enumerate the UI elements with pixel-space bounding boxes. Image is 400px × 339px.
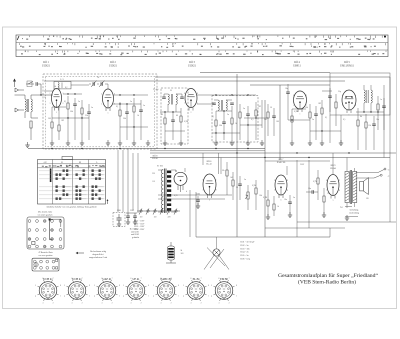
capacitor C9 <box>139 100 143 140</box>
resistor R104 <box>266 190 270 219</box>
shield box (demodulator) <box>330 73 390 115</box>
svg-text:5n: 5n <box>312 119 314 121</box>
wire +anode supply <box>44 77 390 81</box>
label RÖ 9 EL84 <box>330 164 336 170</box>
svg-text:0,5M: 0,5M <box>184 121 188 123</box>
capacitor C105 <box>288 195 292 217</box>
label wafer switch I <box>37 211 53 217</box>
svg-text:6: 6 <box>326 180 327 182</box>
svg-text:6,3V: 6,3V <box>174 195 178 197</box>
svg-text:1: 1 <box>119 295 120 297</box>
resistor R19 <box>365 114 367 150</box>
svg-text:50k: 50k <box>305 107 308 109</box>
resistor R2 <box>67 96 69 140</box>
svg-text:C103 = 10n: C103 = 10n <box>240 248 249 250</box>
svg-text:1k: 1k <box>277 206 279 208</box>
svg-text:8: 8 <box>216 190 217 192</box>
svg-text:5n: 5n <box>243 108 245 110</box>
wire top bus <box>200 73 330 86</box>
svg-text:4: 4 <box>153 295 154 297</box>
svg-text:3: 3 <box>71 303 72 305</box>
svg-text:3: 3 <box>218 303 219 305</box>
resistor R7 <box>133 98 135 140</box>
svg-text:25k: 25k <box>85 115 88 117</box>
svg-text:U102 = 125V: U102 = 125V <box>134 223 145 225</box>
svg-text:4: 4 <box>64 295 65 297</box>
title line 1 <box>278 273 378 279</box>
svg-text:2: 2 <box>191 112 192 114</box>
svg-text:50k: 50k <box>70 111 73 113</box>
svg-text:EZ 80: EZ 80 <box>152 158 158 160</box>
wire chassis bus <box>28 148 265 149</box>
resistor R3 <box>81 100 83 140</box>
label Tr101 <box>157 166 163 168</box>
resistor R107 <box>322 188 326 217</box>
wire grid RÖ1 <box>31 94 53 95</box>
note text block <box>130 229 140 239</box>
wire heater bus <box>150 151 330 161</box>
resistor R9 <box>180 108 182 140</box>
svg-text:2: 2 <box>82 303 83 305</box>
resistor R103 <box>255 180 257 210</box>
svg-text:UAF 41: UAF 41 <box>102 278 112 281</box>
svg-text:UBF11: UBF11 <box>293 65 301 68</box>
wire demod link <box>288 91 341 143</box>
svg-text:4: 4 <box>94 295 95 297</box>
coil L3 (oscillator) <box>54 79 71 89</box>
title line 2 <box>298 281 356 286</box>
wire ratio det link <box>356 108 384 113</box>
wire RÖ1 anode <box>63 93 82 94</box>
tube RÖ4 UBF11 <box>294 91 307 112</box>
svg-text:2: 2 <box>171 303 172 305</box>
svg-text:AU: AU <box>43 161 47 164</box>
wire screen-grid link II <box>113 103 148 127</box>
value labels (section IV) <box>285 88 382 127</box>
svg-text:8: 8 <box>184 93 185 95</box>
svg-text:5: 5 <box>211 285 212 287</box>
svg-text:1: 1 <box>349 115 350 117</box>
value labels (section III) <box>212 106 279 127</box>
svg-text:0,3: 0,3 <box>251 119 253 121</box>
svg-text:100: 100 <box>276 121 279 123</box>
capacitor C14 <box>246 106 250 140</box>
svg-text:6: 6 <box>190 278 191 280</box>
svg-text:25p: 25p <box>338 91 341 93</box>
label RÖ 6 EL41 <box>206 160 212 166</box>
svg-text:EABC 80: EABC 80 <box>277 161 286 164</box>
svg-text:0,1: 0,1 <box>212 116 214 118</box>
svg-text:1n: 1n <box>380 99 382 101</box>
svg-text:2: 2 <box>342 105 343 107</box>
svg-text:10n: 10n <box>308 188 311 190</box>
svg-text:1: 1 <box>208 295 209 297</box>
svg-text:EL 84: EL 84 <box>330 168 336 170</box>
wafer switch I <box>27 217 64 249</box>
label RÖ 8 EZ80 <box>152 154 158 160</box>
svg-text:5n: 5n <box>244 179 246 181</box>
svg-text:2M: 2M <box>264 119 267 121</box>
tube socket EL 84 <box>183 278 209 305</box>
svg-text:15k: 15k <box>368 125 371 127</box>
svg-text:4: 4 <box>123 295 124 297</box>
svg-text:3: 3 <box>63 93 64 95</box>
svg-text:EM 80: EM 80 <box>220 278 228 281</box>
tube socket UCH 41 <box>64 278 90 305</box>
svg-text:7: 7 <box>274 190 275 192</box>
svg-text:5: 5 <box>64 285 65 287</box>
wire IF I link <box>160 111 185 131</box>
svg-text:0,7M: 0,7M <box>313 181 317 183</box>
ground row (section I) <box>50 140 110 145</box>
svg-text:5: 5 <box>101 104 102 106</box>
power transformer Tr101 <box>158 169 176 214</box>
resistor R20 <box>335 94 337 126</box>
svg-text:6: 6 <box>293 95 294 97</box>
svg-text:8: 8 <box>114 104 115 106</box>
resistor R14 <box>291 109 293 140</box>
resistor R18 <box>357 112 359 150</box>
svg-text:C105 = 5n: C105 = 5n <box>240 255 248 257</box>
capacitor C16 <box>314 106 318 140</box>
wafer switch II <box>32 258 59 271</box>
label wafer switch II <box>38 251 53 257</box>
svg-text:5: 5 <box>197 103 198 105</box>
svg-text:220: 220 <box>152 173 155 175</box>
tube socket UF 41 <box>123 278 149 305</box>
resistor R15 <box>309 104 311 140</box>
tube RÖ5 UM11 <box>342 90 356 113</box>
svg-text:(VEB Stern-Radio Berlin): (VEB Stern-Radio Berlin) <box>298 281 356 286</box>
shield box (input/oscillator) <box>43 74 157 149</box>
svg-text:U101 = 110V: U101 = 110V <box>134 221 145 223</box>
resistor R101 <box>226 162 228 195</box>
svg-text:7: 7 <box>326 190 327 192</box>
trimmer capacitors C4 C5 <box>89 81 108 88</box>
svg-text:3: 3 <box>203 190 204 192</box>
svg-text:8: 8 <box>197 93 198 95</box>
svg-text:C106 = 0,1µ: C106 = 0,1µ <box>240 259 251 261</box>
svg-text:Gesamtstromlaufplan für Super: Gesamtstromlaufplan für Super „Friedland… <box>278 273 378 279</box>
svg-text:7: 7 <box>229 278 230 280</box>
tube socket EABC 80 <box>153 278 179 305</box>
resistor R105 <box>273 196 275 216</box>
antenna terminal <box>13 79 24 93</box>
diode detector cluster <box>262 100 276 136</box>
wire AVC bus <box>150 157 390 158</box>
svg-text:5n: 5n <box>143 105 145 107</box>
svg-text:10k: 10k <box>259 195 262 197</box>
value labels (power section) <box>152 170 262 197</box>
tube socket EM 80 <box>211 278 237 305</box>
svg-text:3: 3 <box>333 200 334 202</box>
capacitor C13 <box>222 111 226 140</box>
svg-text:4: 4 <box>183 295 184 297</box>
tube RÖ7 <box>275 175 287 198</box>
svg-text:2: 2 <box>339 180 340 182</box>
svg-text:4: 4 <box>211 295 212 297</box>
svg-text:6: 6 <box>339 190 340 192</box>
svg-text:C101 = 50+50 µF: C101 = 50+50 µF <box>240 242 255 244</box>
svg-text:8k: 8k <box>360 116 362 118</box>
tube RÖ3 UCH21 <box>185 89 197 111</box>
capacitor C15 <box>286 84 290 120</box>
tube pin numbers <box>50 93 357 202</box>
svg-text:UCH21: UCH21 <box>109 65 118 68</box>
wire RÖ3 anode bus <box>197 94 256 95</box>
tube RÖ1 UCH21 <box>52 89 62 111</box>
fuse Si101 <box>166 242 184 263</box>
svg-text:8: 8 <box>236 285 237 287</box>
label RÖ 1 UCH21 <box>42 61 51 67</box>
svg-text:gebrückt: gebrückt <box>132 236 139 239</box>
label RÖ 7 UBL21 <box>277 158 286 164</box>
svg-text:7: 7 <box>53 278 54 280</box>
svg-text:5: 5 <box>123 285 124 287</box>
svg-text:50: 50 <box>236 187 238 189</box>
wire output section <box>196 153 396 237</box>
svg-text:3: 3 <box>160 303 161 305</box>
svg-text:Ub: Ub <box>222 170 224 172</box>
svg-text:UCH 41: UCH 41 <box>72 278 82 281</box>
svg-text:8: 8 <box>208 285 209 287</box>
svg-text:60: 60 <box>161 114 163 116</box>
value labels (section I) <box>44 77 99 122</box>
table caption <box>47 206 97 209</box>
heater wiring <box>158 153 232 237</box>
svg-text:von unten gesehen: von unten gesehen <box>38 213 53 216</box>
svg-text:3: 3 <box>190 303 191 305</box>
svg-text:2n: 2n <box>130 101 132 103</box>
svg-text:C102 = 5n: C102 = 5n <box>240 245 248 247</box>
svg-text:8,2: 8,2 <box>65 87 67 89</box>
resistor R8 <box>164 112 166 140</box>
svg-text:4: 4 <box>186 191 187 193</box>
svg-text:3: 3 <box>209 200 210 202</box>
capacitor C8 <box>125 104 129 140</box>
svg-text:4: 4 <box>35 295 36 297</box>
svg-text:UCH 41: UCH 41 <box>43 278 53 281</box>
svg-text:L5: L5 <box>170 90 172 92</box>
wire screen-grid link I <box>52 107 89 119</box>
svg-text:130: 130 <box>327 193 330 195</box>
resistor R11 <box>231 106 233 140</box>
tube RÖ2 UCH21 <box>103 89 114 111</box>
svg-text:30k: 30k <box>123 118 126 120</box>
ground row (demod) <box>290 140 343 145</box>
wire IF II link <box>197 104 268 134</box>
svg-text:von vorn gesehen: von vorn gesehen <box>39 255 53 257</box>
svg-text:250V: 250V <box>300 164 305 166</box>
svg-text:50: 50 <box>270 107 272 109</box>
wire right edge <box>330 77 390 222</box>
svg-text:8: 8 <box>178 285 179 287</box>
svg-text:8: 8 <box>89 285 90 287</box>
svg-text:EL 84: EL 84 <box>193 278 200 281</box>
wires to electrolytic <box>118 149 138 214</box>
ground <box>25 142 29 147</box>
note Wechselstrom with arrow <box>76 250 108 259</box>
capacitor C103 <box>196 194 200 209</box>
label C101 <box>117 210 121 212</box>
svg-text:7: 7 <box>306 105 307 107</box>
earth terminal <box>15 108 24 112</box>
ground row (section II) <box>118 140 150 145</box>
svg-text:8: 8 <box>287 190 288 192</box>
svg-text:und R102: und R102 <box>131 234 139 236</box>
tube RÖ8 rectifier <box>174 170 187 192</box>
svg-text:1k2: 1k2 <box>230 177 233 179</box>
svg-text:C4: C4 <box>97 77 99 79</box>
resistor R1 <box>30 121 32 140</box>
svg-text:1: 1 <box>293 105 294 107</box>
resistor R12 <box>239 104 241 140</box>
svg-text:UM11/EM11: UM11/EM11 <box>340 65 354 68</box>
svg-text:0,1: 0,1 <box>64 101 66 103</box>
resistor R106 <box>317 170 319 200</box>
svg-text:10n: 10n <box>376 119 379 121</box>
svg-text:0,1: 0,1 <box>325 117 327 119</box>
svg-text:JP Bereichs-Taste: JP Bereichs-Taste <box>38 251 53 254</box>
svg-text:Sämtliche Schalter von vorn ge: Sämtliche Schalter von vorn gesehen, Ste… <box>47 206 97 209</box>
resistor R17 <box>377 96 379 130</box>
value labels (output section) <box>263 164 369 209</box>
dial scale <box>16 35 388 57</box>
svg-text:0,3M: 0,3M <box>294 111 298 113</box>
svg-text:7: 7 <box>82 278 83 280</box>
label RÖ 3 UCH21 <box>188 61 197 67</box>
label C102 <box>130 210 134 212</box>
svg-text:10n: 10n <box>285 88 288 90</box>
output terminals C <box>357 168 390 178</box>
svg-text:5: 5 <box>35 285 36 287</box>
svg-text:1M: 1M <box>318 103 321 105</box>
svg-text:Wechselstrom seitig: Wechselstrom seitig <box>90 250 106 253</box>
speaker terminal notes <box>345 207 359 221</box>
svg-text:5: 5 <box>56 112 57 114</box>
wire vertical feed x280 <box>279 85 281 160</box>
svg-text:6: 6 <box>281 200 282 202</box>
svg-text:110: 110 <box>152 181 155 183</box>
svg-text:2: 2 <box>229 303 230 305</box>
svg-text:1: 1 <box>148 295 149 297</box>
tube socket UAF 41 <box>94 278 120 305</box>
svg-text:1n: 1n <box>44 97 46 99</box>
svg-text:50k: 50k <box>219 125 222 127</box>
capacitor C104 <box>238 176 242 200</box>
svg-text:8: 8 <box>60 285 61 287</box>
svg-text:5: 5 <box>153 285 154 287</box>
dial lamp La101 <box>204 237 229 270</box>
svg-text:UCH21: UCH21 <box>188 65 197 68</box>
svg-text:U104 = 220V: U104 = 220V <box>134 229 145 231</box>
arrow marker <box>107 199 109 204</box>
svg-text:C101: C101 <box>117 210 121 212</box>
svg-text:2n: 2n <box>78 101 80 103</box>
value labels (section II) <box>116 89 188 123</box>
svg-text:UCH21: UCH21 <box>42 65 51 68</box>
capacitor value list <box>240 242 255 261</box>
svg-text:0,5: 0,5 <box>343 119 345 121</box>
svg-text:3: 3 <box>50 103 51 105</box>
svg-text:2n: 2n <box>227 114 229 116</box>
resistor R6 <box>119 102 121 140</box>
svg-text:5: 5 <box>355 95 356 97</box>
svg-text:C104 = 2n: C104 = 2n <box>240 252 248 254</box>
coil L1/L2 (antenna transformer) <box>15 95 39 118</box>
svg-text:6: 6 <box>130 278 131 280</box>
svg-text:10n: 10n <box>284 199 287 201</box>
svg-text:60: 60 <box>176 115 178 117</box>
svg-text:8: 8 <box>148 285 149 287</box>
svg-text:U103 = 150V: U103 = 150V <box>134 226 145 228</box>
svg-text:5n: 5n <box>293 197 295 199</box>
table contact marks <box>39 170 105 200</box>
svg-text:sind L101: sind L101 <box>131 231 139 233</box>
svg-text:1: 1 <box>178 295 179 297</box>
loudspeaker <box>360 178 369 195</box>
resistor R4 <box>51 107 53 140</box>
svg-text:8: 8 <box>287 180 288 182</box>
wire vertical feed x265 <box>264 100 266 237</box>
svg-text:7: 7 <box>184 103 185 105</box>
capacitor C12 <box>171 112 175 140</box>
svg-text:1: 1 <box>342 95 343 97</box>
coil L9 (ratio detector) <box>364 85 372 112</box>
svg-text:1k: 1k <box>137 115 139 117</box>
label RÖ 4 UBF11 <box>293 61 301 67</box>
svg-text:5: 5 <box>306 95 307 97</box>
svg-text:C102: C102 <box>130 210 134 212</box>
svg-text:8: 8 <box>119 285 120 287</box>
IF transformer II (L7/L8) <box>212 100 234 111</box>
svg-text:EL 41: EL 41 <box>206 164 211 166</box>
selector caption <box>134 221 145 231</box>
svg-text:2: 2 <box>101 94 102 96</box>
svg-text:1: 1 <box>89 295 90 297</box>
svg-text:niederohmig: niederohmig <box>349 212 359 215</box>
svg-text:3: 3 <box>130 303 131 305</box>
svg-text:7: 7 <box>201 278 202 280</box>
potentiometer P1 (volume) <box>245 185 249 210</box>
capacitor C19 <box>328 88 332 112</box>
mains voltage selector <box>137 209 180 219</box>
capacitor C17 <box>382 98 386 130</box>
tube RÖ9 output <box>327 175 339 199</box>
svg-text:1: 1 <box>236 295 237 297</box>
svg-text:dargestellt bei: dargestellt bei <box>92 253 104 256</box>
wire oscillator top <box>44 84 108 91</box>
capacitor C18 <box>372 116 376 150</box>
svg-text:7: 7 <box>141 278 142 280</box>
svg-text:F1 450: F1 450 <box>153 89 158 91</box>
wire RÖ2 anode <box>114 94 149 95</box>
wire AF bus <box>150 152 396 153</box>
svg-text:1: 1 <box>50 93 51 95</box>
ground row (IF II) <box>214 140 264 145</box>
shield box (IF transformer II) <box>212 96 258 143</box>
svg-text:0,5M: 0,5M <box>252 185 256 187</box>
resistor R10 <box>215 111 217 140</box>
tube socket UCH 41 <box>35 278 61 305</box>
svg-text:1: 1 <box>60 295 61 297</box>
svg-text:L4: L4 <box>54 86 56 88</box>
svg-text:1: 1 <box>300 114 301 116</box>
svg-text:UF 41: UF 41 <box>132 278 140 281</box>
svg-text:1k: 1k <box>235 123 237 125</box>
capacitor C106 <box>306 190 318 194</box>
svg-text:0,5M: 0,5M <box>263 197 267 199</box>
